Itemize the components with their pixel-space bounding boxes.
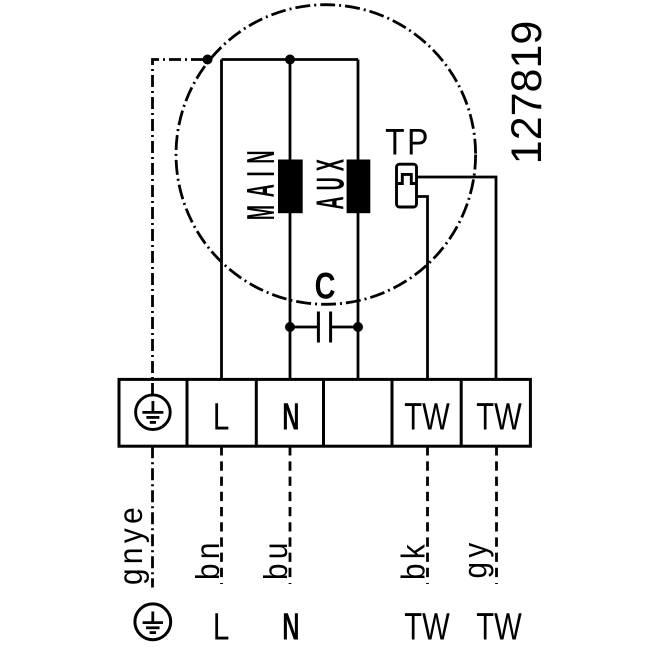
label TP xyxy=(385,122,431,163)
terminal label TW (2) xyxy=(476,396,521,439)
PE terminal symbol circle xyxy=(136,395,171,430)
lead bn (dashed) xyxy=(220,446,223,584)
capacitor C: node right xyxy=(353,322,363,332)
capacitor C: plate left xyxy=(317,312,320,343)
terminal divider 5 xyxy=(460,379,463,446)
terminal block outline xyxy=(119,379,530,446)
winding MAIN (rect) xyxy=(278,160,303,214)
wire: TP lower terminal to TW1 xyxy=(417,197,428,380)
bottom ground symbol circle xyxy=(135,604,171,640)
svg-text:127819: 127819 xyxy=(503,21,551,165)
wire: top horizontal bus xyxy=(222,58,359,61)
terminal label TW (1) xyxy=(404,396,449,439)
node: junction top bus / N wire xyxy=(285,55,295,65)
lead gy (dashed) xyxy=(495,446,498,584)
svg-text:N: N xyxy=(282,395,299,438)
bottom label N xyxy=(282,605,299,648)
svg-text:L: L xyxy=(213,606,229,648)
svg-text:L: L xyxy=(213,396,229,438)
terminal label N xyxy=(282,395,299,438)
terminal divider 3 xyxy=(322,379,325,446)
svg-text:gy: gy xyxy=(457,538,494,578)
svg-text:C: C xyxy=(315,266,336,307)
svg-text:TW: TW xyxy=(476,606,521,649)
PE lead below block (dash-dot) xyxy=(151,446,154,587)
svg-text:TW: TW xyxy=(476,396,521,439)
terminal divider 4 xyxy=(391,379,394,446)
capacitor C: node left xyxy=(285,322,295,332)
terminal divider 1 xyxy=(186,379,189,446)
PE terminal symbol bar 3 xyxy=(150,421,156,424)
bottom ground symbol stem xyxy=(151,612,154,623)
svg-text:MAIN: MAIN xyxy=(241,143,283,220)
label bk xyxy=(395,540,432,580)
capacitor C: lead left xyxy=(290,326,318,329)
capacitor C: plate right xyxy=(329,312,332,343)
label AUX xyxy=(310,153,352,210)
label bu xyxy=(258,538,295,580)
svg-text:bk: bk xyxy=(395,540,432,580)
bottom ground symbol bar 1 xyxy=(143,621,163,624)
capacitor C: lead right xyxy=(331,326,358,329)
label bn xyxy=(190,538,227,580)
lead bu (dashed) xyxy=(289,446,292,584)
svg-text:bu: bu xyxy=(258,538,295,580)
bottom label TW (2) xyxy=(476,606,521,649)
PE terminal symbol stem xyxy=(151,401,154,412)
thermal protector TP body xyxy=(397,164,417,207)
label gnye xyxy=(113,503,150,585)
svg-text:gnye: gnye xyxy=(113,503,150,585)
lead bk (dashed) xyxy=(426,446,429,584)
svg-text:AUX: AUX xyxy=(310,153,352,210)
svg-text:TW: TW xyxy=(404,396,449,439)
bottom ground symbol bar 3 xyxy=(150,631,156,634)
label MAIN xyxy=(241,143,283,220)
wire: N vertical through MAIN xyxy=(289,60,292,380)
terminal divider 2 xyxy=(255,379,258,446)
label gy xyxy=(457,538,494,578)
label 127819 xyxy=(503,21,551,165)
motor housing circle xyxy=(176,5,476,305)
svg-text:TW: TW xyxy=(404,606,449,649)
protective earth dash-dot wire (top-left corner run) xyxy=(153,60,204,396)
svg-text:TP: TP xyxy=(385,122,431,163)
winding AUX (rect) xyxy=(347,160,371,214)
terminal label L xyxy=(213,396,229,438)
PE terminal symbol bar 2 xyxy=(146,416,159,419)
PE terminal symbol bar 1 xyxy=(142,411,163,414)
node: PE connection to housing xyxy=(203,55,213,65)
svg-text:N: N xyxy=(282,605,299,648)
svg-text:bn: bn xyxy=(190,538,227,580)
thermal protector TP contact xyxy=(398,174,416,183)
wire: TP right terminal to TW2 xyxy=(417,177,497,380)
bottom label TW (1) xyxy=(404,606,449,649)
bottom ground symbol bar 2 xyxy=(146,626,160,629)
wire: L vertical xyxy=(220,60,223,380)
bottom label L xyxy=(213,606,229,648)
wire: AUX vertical xyxy=(357,60,360,380)
label C xyxy=(315,266,336,307)
